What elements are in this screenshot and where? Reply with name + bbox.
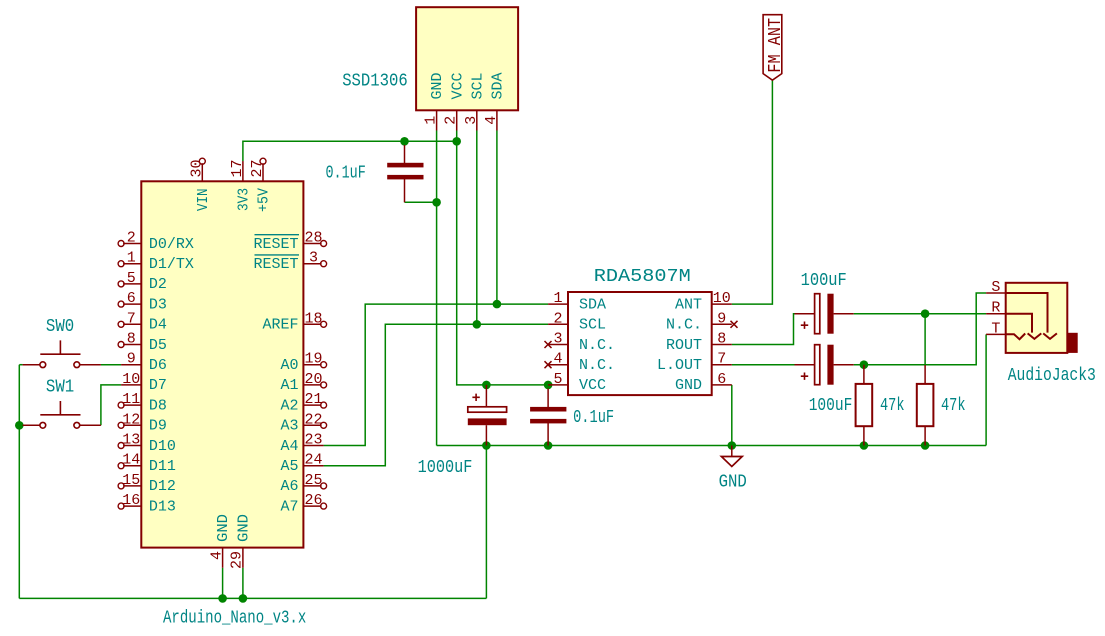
connector J1 AudioJack3 xyxy=(986,279,1096,386)
R1 pins xyxy=(863,365,865,446)
svg-text:N.C.: N.C. xyxy=(666,317,702,334)
svg-text:1000uF: 1000uF xyxy=(418,458,473,478)
rda5807m right pin names xyxy=(657,296,702,394)
svg-text:D0/RX: D0/RX xyxy=(149,236,194,253)
rda5807m left pin names xyxy=(579,296,615,394)
wire RDA LOUT to C5 xyxy=(732,364,795,366)
svg-text:1: 1 xyxy=(423,116,440,125)
svg-text:ANT: ANT xyxy=(675,296,702,313)
R2 pins xyxy=(924,365,926,446)
junction R2 top xyxy=(921,309,930,318)
svg-text:A5: A5 xyxy=(280,458,298,475)
svg-text:6: 6 xyxy=(717,371,726,388)
svg-text:3: 3 xyxy=(463,116,480,125)
capacitor C4 100uF top polarized xyxy=(795,271,854,334)
arduino top pin numbers 30 17 27 xyxy=(188,159,266,177)
ssd1306 pin names xyxy=(429,73,506,100)
svg-text:GND: GND xyxy=(719,473,747,493)
svg-text:RDA5807M: RDA5807M xyxy=(594,267,691,287)
resistor R1 47k xyxy=(856,365,905,446)
junction SW1 left xyxy=(15,421,24,430)
C2 pins xyxy=(485,385,487,446)
C1 plates xyxy=(387,163,423,168)
svg-text:2: 2 xyxy=(553,310,562,327)
wire RDA ROUT to C4 xyxy=(732,314,795,345)
svg-text:D10: D10 xyxy=(149,438,176,455)
svg-text:24: 24 xyxy=(304,452,322,469)
R1 body xyxy=(856,384,873,426)
svg-text:9: 9 xyxy=(127,351,136,368)
junction 1000uF bottom xyxy=(482,441,491,450)
rda5807m left pin numbers xyxy=(553,290,562,388)
svg-text:D5: D5 xyxy=(149,337,167,354)
svg-text:AudioJack3: AudioJack3 xyxy=(1008,366,1096,386)
arduino left pin numbers xyxy=(122,230,140,510)
arduino left pin names xyxy=(149,236,194,516)
svg-text:N.C.: N.C. xyxy=(579,357,615,374)
C4 negative plate xyxy=(827,294,833,334)
wire SW1 right up to D7 xyxy=(101,385,121,425)
svg-text:22: 22 xyxy=(304,411,322,428)
svg-text:GND: GND xyxy=(236,514,253,542)
wire 3V3 to SSD1306 VCC rail xyxy=(243,141,457,161)
arduino bottom pin stubs GND GND xyxy=(223,548,243,568)
svg-text:0.1uF: 0.1uF xyxy=(573,408,614,428)
C2 negative plate xyxy=(468,418,507,425)
svg-text:A1: A1 xyxy=(280,377,298,394)
SW0 pins xyxy=(23,364,101,366)
wire jack T to gnd rail xyxy=(985,334,987,445)
svg-text:3: 3 xyxy=(309,250,318,267)
junction C3 bottom xyxy=(544,441,553,450)
junction C1 bottom xyxy=(432,198,441,207)
wire bottom gnd rail xyxy=(19,597,486,599)
svg-text:13: 13 xyxy=(122,432,140,449)
svg-text:SCL: SCL xyxy=(579,317,606,334)
svg-text:1: 1 xyxy=(553,290,562,307)
svg-text:100uF: 100uF xyxy=(809,396,853,416)
wire left rail switches xyxy=(18,365,20,599)
svg-text:16: 16 xyxy=(122,492,140,509)
wire SW0 left stub xyxy=(19,364,22,366)
svg-text:SW1: SW1 xyxy=(46,377,74,397)
svg-text:10: 10 xyxy=(713,290,731,307)
svg-text:10: 10 xyxy=(122,371,140,388)
junction SDA xyxy=(493,300,502,309)
capacitor C1 0.1uF top xyxy=(326,145,424,202)
svg-text:D7: D7 xyxy=(149,377,167,394)
wire RDA pin6 GND down xyxy=(731,385,733,446)
svg-text:7: 7 xyxy=(127,310,136,327)
junction GND symbol xyxy=(728,441,737,450)
svg-text:A6: A6 xyxy=(280,478,298,495)
svg-text:SDA: SDA xyxy=(579,296,606,313)
svg-text:SW0: SW0 xyxy=(46,317,74,337)
wire gnd rail horizontal xyxy=(437,445,987,447)
svg-text:D1/TX: D1/TX xyxy=(149,256,194,273)
svg-text:11: 11 xyxy=(122,391,140,408)
svg-text:8: 8 xyxy=(127,331,136,348)
switch SW1 push button xyxy=(23,377,101,428)
svg-text:3V3: 3V3 xyxy=(235,188,252,211)
junction VCC rail xyxy=(452,137,461,146)
jack pin letters xyxy=(991,279,1000,337)
wire SW1 left stub xyxy=(19,424,22,426)
C4 plus sign xyxy=(801,322,808,329)
junction R1 bottom xyxy=(860,441,869,450)
svg-text:9: 9 xyxy=(717,310,726,327)
C5 positive plate xyxy=(815,345,820,385)
svg-text:4: 4 xyxy=(208,551,225,560)
switch SW0 push button xyxy=(23,317,101,368)
svg-text:6: 6 xyxy=(127,290,136,307)
svg-text:2: 2 xyxy=(443,116,460,125)
svg-text:+5V: +5V xyxy=(256,188,273,212)
svg-text:D11: D11 xyxy=(149,458,176,475)
arduino bottom pin names GND GND xyxy=(215,514,252,542)
svg-text:4: 4 xyxy=(553,351,562,368)
capacitor C5 100uF bottom polarized xyxy=(795,345,854,416)
C1 pins xyxy=(404,145,406,202)
svg-text:Arduino_Nano_v3.x: Arduino_Nano_v3.x xyxy=(163,608,306,628)
wire arduino GND pin29 down xyxy=(242,568,244,599)
arduino right pin circles xyxy=(321,241,327,510)
junction RDA VCC xyxy=(544,381,553,390)
wire SSD1306 pin3 SCL down xyxy=(476,131,478,325)
SW0 contacts xyxy=(40,362,80,368)
svg-text:GND: GND xyxy=(429,73,446,100)
arduino right pin stubs xyxy=(303,244,323,507)
capacitor C3 0.1uF near RDA xyxy=(530,389,614,446)
rda5807m right pin numbers xyxy=(713,290,731,388)
C2 positive plate xyxy=(468,407,507,412)
svg-text:D4: D4 xyxy=(149,317,167,334)
svg-text:AREF: AREF xyxy=(262,317,298,334)
svg-text:D13: D13 xyxy=(149,498,176,515)
wire A5 to SCL row xyxy=(324,324,548,465)
svg-text:12: 12 xyxy=(122,411,140,428)
svg-text:S: S xyxy=(991,279,1000,296)
svg-text:VCC: VCC xyxy=(449,73,466,100)
svg-text:26: 26 xyxy=(304,492,322,509)
svg-text:29: 29 xyxy=(229,551,246,569)
svg-text:A0: A0 xyxy=(280,357,298,374)
C4 positive plate xyxy=(815,294,820,334)
svg-text:5: 5 xyxy=(127,270,136,287)
power symbol GND xyxy=(719,446,747,493)
ssd1306 pin stubs xyxy=(437,110,497,130)
svg-text:A2: A2 xyxy=(280,397,298,414)
SW1 actuator xyxy=(40,401,80,415)
arduino bottom pin numbers 4 29 xyxy=(208,551,245,569)
svg-text:30: 30 xyxy=(188,159,205,177)
svg-text:4: 4 xyxy=(483,116,500,125)
junction C1 top xyxy=(400,137,409,146)
wire SSD1306 pin4 SDA down xyxy=(496,131,498,305)
C3 plates xyxy=(530,407,566,412)
svg-text:SSD1306: SSD1306 xyxy=(342,71,408,91)
rda5807m right pin stubs xyxy=(712,304,732,385)
svg-text:21: 21 xyxy=(304,391,322,408)
jack pin stubs S R T xyxy=(986,293,1006,334)
svg-text:SDA: SDA xyxy=(490,73,507,100)
wire R2 top xyxy=(924,314,926,365)
wire FM_ANT to RDA ANT xyxy=(732,80,773,304)
svg-text:100uF: 100uF xyxy=(801,271,847,291)
SW0 actuator xyxy=(40,340,80,354)
wire cap C1 bottom to GND line xyxy=(405,201,437,203)
arduino right pin numbers xyxy=(304,230,322,510)
wire SW0 right to D6 xyxy=(101,364,121,366)
svg-text:D12: D12 xyxy=(149,478,176,495)
svg-text:5: 5 xyxy=(553,371,562,388)
SW1 pins xyxy=(23,424,101,426)
capacitor C2 1000uF polarized xyxy=(418,385,507,478)
arduino body xyxy=(141,181,303,547)
wire SSD1306 pin2 VCC down to RDA VCC row xyxy=(457,131,548,385)
SW1 contacts xyxy=(40,422,80,428)
svg-text:N.C.: N.C. xyxy=(579,337,615,354)
svg-text:25: 25 xyxy=(304,472,322,489)
GND stub xyxy=(731,446,733,457)
no-connect x pin9 xyxy=(731,321,738,328)
resistor R2 47k xyxy=(917,365,966,446)
svg-text:27: 27 xyxy=(249,159,266,177)
svg-text:0.1uF: 0.1uF xyxy=(326,164,366,184)
svg-text:GND: GND xyxy=(675,377,702,394)
svg-text:SCL: SCL xyxy=(469,73,486,100)
FM_ANT outline xyxy=(763,15,782,80)
svg-text:D9: D9 xyxy=(149,418,167,435)
junction GND pin4 xyxy=(218,594,227,603)
svg-text:VCC: VCC xyxy=(579,377,606,394)
junction SCL xyxy=(473,320,482,329)
C4 pins xyxy=(795,313,854,315)
arduino left pin circles xyxy=(118,241,124,510)
wire SSD1306 pin1 GND down to gnd rail xyxy=(436,131,438,446)
C3 pins xyxy=(547,389,549,446)
jack ring contact path xyxy=(1006,314,1042,339)
hierarchical label FM_ANT xyxy=(763,15,786,80)
wire C5 out to jack S xyxy=(854,293,986,365)
svg-text:47k: 47k xyxy=(941,396,966,416)
wire 1000uF bottom to bottom gnd rail xyxy=(485,446,487,599)
R2 body xyxy=(917,384,934,426)
wire A4 to SDA row xyxy=(324,304,548,445)
svg-text:RESET: RESET xyxy=(253,236,298,253)
rda5807m no-connect x pin3 xyxy=(545,321,738,368)
arduino right pin names xyxy=(253,236,298,516)
junction GND pin29 xyxy=(239,594,248,603)
C2 plus sign xyxy=(472,394,479,401)
junction R2 bottom xyxy=(921,441,930,450)
jack tip contact path xyxy=(1006,333,1025,339)
svg-text:R: R xyxy=(991,300,1000,317)
wire C4 out to jack R xyxy=(854,313,986,315)
svg-text:7: 7 xyxy=(717,351,726,368)
rda5807m left pin stubs xyxy=(548,304,568,385)
svg-text:18: 18 xyxy=(304,310,322,327)
svg-text:VIN: VIN xyxy=(195,189,212,212)
junction 1000uF top xyxy=(482,381,491,390)
jack body xyxy=(1006,283,1068,353)
svg-text:D3: D3 xyxy=(149,296,167,313)
arduino left pin stubs xyxy=(121,244,141,507)
jack sleeve contact path xyxy=(1006,293,1057,339)
svg-text:47k: 47k xyxy=(880,396,905,416)
arduino top pin circles xyxy=(199,158,266,164)
svg-text:A3: A3 xyxy=(280,418,298,435)
radio RDA5807M xyxy=(545,267,738,395)
svg-text:FM_ANT: FM_ANT xyxy=(766,18,786,73)
svg-text:A4: A4 xyxy=(280,438,298,455)
svg-text:D8: D8 xyxy=(149,397,167,414)
no-connect x pin4 xyxy=(545,361,552,368)
MCU Arduino_Nano_v3.x A1 xyxy=(118,158,327,628)
svg-text:RESET: RESET xyxy=(253,256,298,273)
ssd1306 body xyxy=(416,7,518,110)
svg-text:28: 28 xyxy=(304,230,322,247)
svg-text:ROUT: ROUT xyxy=(666,337,702,354)
ssd1306 pin numbers 1 2 3 4 xyxy=(423,116,500,125)
svg-text:14: 14 xyxy=(122,452,140,469)
svg-text:2: 2 xyxy=(127,230,136,247)
arduino RESET overlines xyxy=(255,234,300,236)
C5 plus sign xyxy=(801,373,808,380)
svg-text:D6: D6 xyxy=(149,357,167,374)
display SSD1306 xyxy=(342,7,518,130)
svg-text:17: 17 xyxy=(229,159,246,177)
jack sleeve notch xyxy=(1067,333,1077,353)
svg-text:15: 15 xyxy=(122,472,140,489)
svg-text:8: 8 xyxy=(717,331,726,348)
svg-text:GND: GND xyxy=(215,514,232,542)
svg-text:3: 3 xyxy=(553,331,562,348)
C5 pins xyxy=(795,364,854,366)
svg-text:D2: D2 xyxy=(149,276,167,293)
arduino top pin stubs VIN 3V3 +5V xyxy=(202,161,263,181)
svg-text:23: 23 xyxy=(304,432,322,449)
svg-text:A7: A7 xyxy=(280,498,298,515)
junction R1 top xyxy=(860,360,869,369)
rda5807m body xyxy=(568,292,712,395)
svg-text:T: T xyxy=(991,320,1000,337)
svg-text:19: 19 xyxy=(304,351,322,368)
svg-text:1: 1 xyxy=(127,250,136,267)
arduino top pin names xyxy=(195,188,273,212)
svg-text:L.OUT: L.OUT xyxy=(657,357,702,374)
GND triangle xyxy=(721,457,742,467)
svg-text:20: 20 xyxy=(304,371,322,388)
wire arduino GND pin4 down xyxy=(222,568,224,599)
C5 negative plate xyxy=(827,345,833,385)
